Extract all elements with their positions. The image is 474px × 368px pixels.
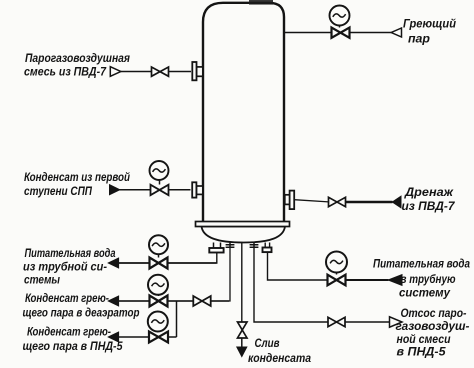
svg-text:Дренаж: Дренаж — [404, 187, 454, 199]
svg-text:смесь из ПВД-7: смесь из ПВД-7 — [24, 67, 107, 79]
svg-text:Конденсат из первой: Конденсат из первой — [24, 172, 130, 184]
svg-text:Питательная вода: Питательная вода — [373, 259, 471, 271]
svg-text:газовоздуш-: газовоздуш- — [396, 321, 470, 333]
svg-text:в трубную: в трубную — [401, 274, 456, 286]
svg-text:Конденсат грею-: Конденсат грею- — [25, 293, 109, 305]
svg-text:щего пара в деаэратор: щего пара в деаэратор — [23, 308, 140, 320]
svg-text:ступени СПП: ступени СПП — [24, 186, 93, 198]
svg-text:систему: систему — [399, 288, 451, 300]
svg-text:ной смеси: ной смеси — [397, 334, 451, 346]
svg-text:из ПВД-7: из ПВД-7 — [402, 201, 456, 213]
svg-text:пар: пар — [408, 34, 430, 46]
svg-text:щего пара в ПНД-5: щего пара в ПНД-5 — [23, 341, 124, 353]
svg-text:Греющий: Греющий — [403, 19, 456, 31]
svg-text:Питательная вода: Питательная вода — [25, 248, 116, 260]
svg-text:Слив: Слив — [255, 338, 280, 350]
svg-text:Отсос паро-: Отсос паро- — [401, 308, 467, 320]
svg-text:из трубной си-: из трубной си- — [23, 262, 107, 274]
svg-text:Конденсат грею-: Конденсат грею- — [27, 327, 111, 339]
svg-text:в ПНД-5: в ПНД-5 — [397, 347, 447, 359]
svg-text:конденсата: конденсата — [248, 353, 312, 365]
svg-text:стемы: стемы — [24, 275, 60, 287]
svg-text:Парогазовоздушная: Парогазовоздушная — [25, 53, 130, 65]
